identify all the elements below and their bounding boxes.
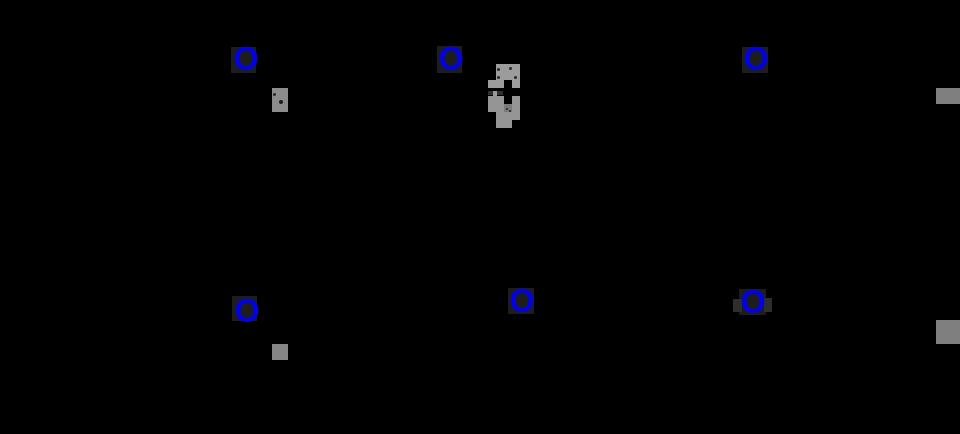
- reagent glyph dots top row: [497, 68, 500, 71]
- label halo behind O3: [742, 47, 768, 73]
- reagent bottom row: middle darker square: [504, 104, 512, 112]
- reagent connector: [493, 91, 497, 96]
- cropped H label box at right edge, top product: [936, 88, 960, 104]
- reagent dark underline segment right: [497, 91, 503, 95]
- reagent dark underline segment left: [488, 91, 494, 95]
- label halo behind O5: [508, 288, 534, 314]
- oxygen atom O3 (top-right molecule carbonyl): [744, 58, 769, 60]
- substituent label box G2 (bottom-left molecule): [272, 344, 288, 360]
- dark glyph dot in G1: [273, 93, 276, 96]
- dark glyph dot in G1: [279, 100, 283, 104]
- reagent text block over arrow: top row: [496, 64, 520, 88]
- oxygen atom O5 (bottom-middle molecule carbonyl): [510, 300, 535, 302]
- notch in reagent top row: [504, 80, 512, 88]
- cropped H label box at right edge, bottom product: [936, 320, 960, 344]
- oxygen atom O4 (bottom-left molecule carbonyl): [235, 310, 260, 312]
- oxygen atom O6 (bottom-right molecule carbonyl): [741, 301, 766, 303]
- bond halo right of O6: [764, 298, 772, 312]
- oxygen atom O1 (top-left molecule carbonyl): [234, 58, 259, 60]
- label halo behind O4: [232, 296, 257, 321]
- reagent top row left extension: [488, 80, 496, 88]
- label halo behind O2: [437, 46, 462, 73]
- bond halo left of O6: [733, 299, 742, 312]
- reagent text block bottom row: left block: [488, 96, 504, 112]
- label halo behind O6: [739, 289, 766, 315]
- oxygen atom O2 (top-middle molecule carbonyl): [439, 58, 464, 60]
- label halo behind O1: [231, 47, 256, 73]
- substituent label box G1 (top-left molecule): [272, 88, 288, 112]
- reagent bottom row: right column: [512, 96, 520, 120]
- reagent bottom row: lower center block: [496, 112, 512, 128]
